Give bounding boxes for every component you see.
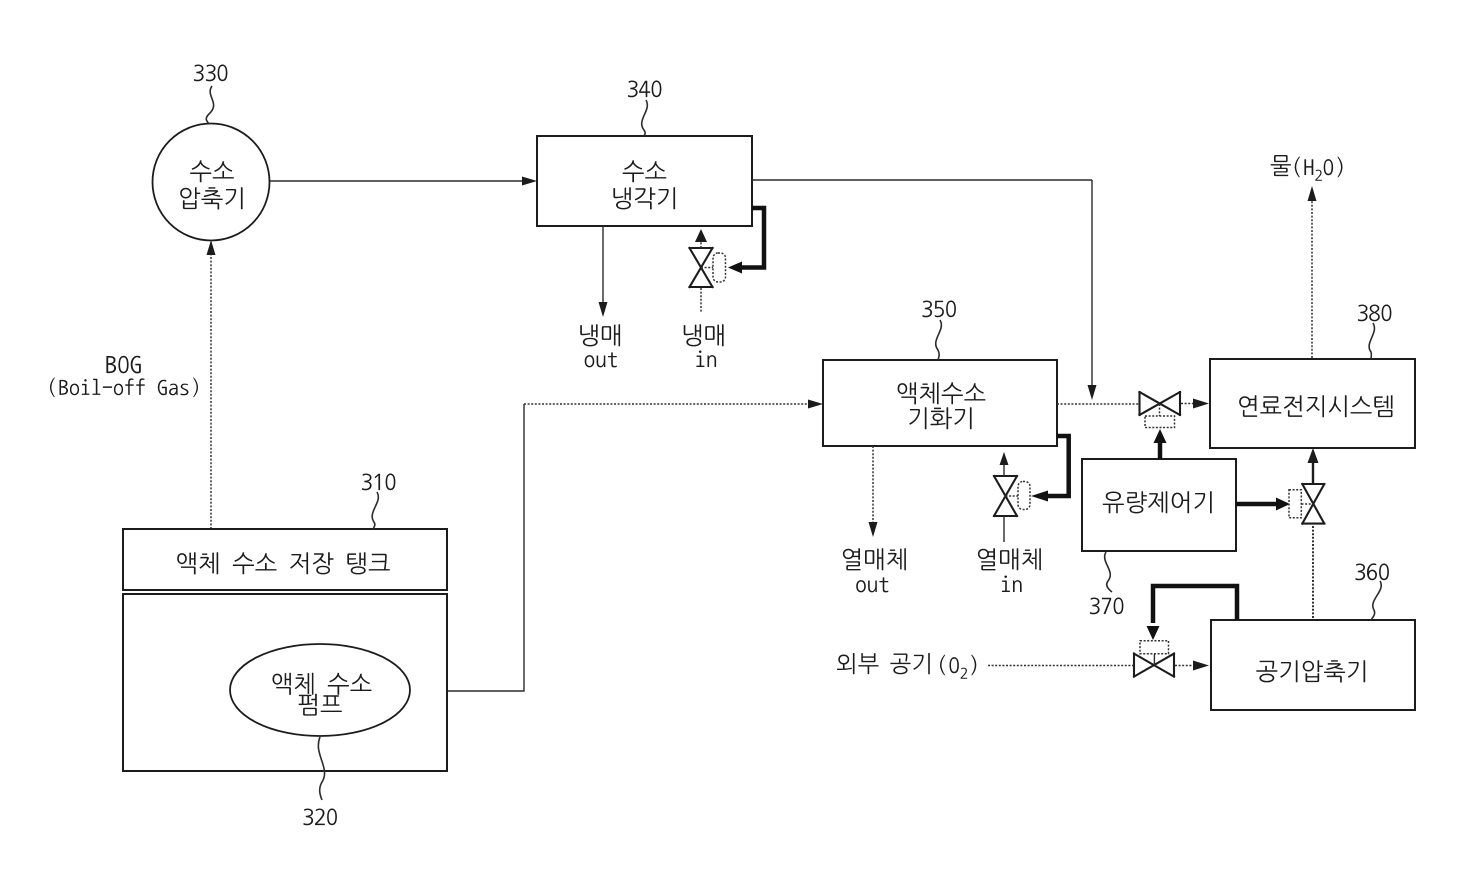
- valve FV2 link to actuator: [1302, 503, 1314, 505]
- wire valve FV3 to air compressor: [1175, 665, 1194, 667]
- valve FV2 air feed: [1302, 484, 1324, 524]
- valve V1 stem to cooler: [700, 242, 702, 248]
- wire valve FV2 to air compressor: [1312, 526, 1314, 620]
- ref label 320: [303, 809, 337, 826]
- ref label 360: [1355, 563, 1389, 580]
- wire valve FV2 to fuel cell (air in): [1312, 463, 1314, 483]
- liquid hydrogen pump ellipse 320: [230, 644, 410, 736]
- heat medium out arrow: [872, 446, 874, 523]
- label 열매체 (out): [843, 548, 906, 570]
- ref 380 leader line: [1369, 323, 1374, 359]
- thick control line cooler to valve V1: [742, 208, 764, 268]
- valve FV3 link to actuator: [1153, 654, 1155, 665]
- wire BOG tank to compressor: [210, 252, 212, 529]
- air compressor text 공기압축기: [1256, 660, 1365, 682]
- wire valve FV1 to fuel cell: [1181, 403, 1194, 405]
- valve FV1 hydrogen feed: [1140, 392, 1181, 415]
- label in 2: [1002, 576, 1022, 593]
- thick control line vaporizer to valve V2: [1048, 436, 1069, 496]
- valve FV3 actuator box: [1140, 641, 1169, 654]
- label subscript 2 of H2O: [1315, 170, 1322, 181]
- wire external air to valve FV3: [988, 665, 1133, 667]
- valve V2 heat medium inlet below vaporizer: [994, 476, 1017, 516]
- label O paren: [1324, 157, 1343, 178]
- vaporizer text line2 기화기: [909, 407, 971, 429]
- tank text 액체 수소 저장 탱크: [177, 552, 390, 574]
- pump text line1 액체 수소: [273, 673, 372, 695]
- water outlet line: [1311, 200, 1313, 358]
- vaporizer text line1 액체수소: [898, 382, 986, 404]
- valve V1 link to actuator: [701, 267, 713, 269]
- ref 340 leader line: [642, 100, 648, 136]
- valve FV1 link to actuator: [1159, 404, 1161, 417]
- label in: [696, 351, 716, 368]
- wire compressor to cooler: [270, 180, 524, 182]
- hydrogen compressor circle 330: [153, 124, 270, 241]
- liquid hydrogen storage tank header box 310: [123, 529, 447, 590]
- wire cooler to fuel-cell line junction: [752, 179, 1092, 181]
- compressor text line1 수소: [190, 160, 234, 182]
- cooler text line2 냉각기: [613, 187, 675, 209]
- refrigerant out arrow: [602, 226, 604, 303]
- ref label 310: [362, 474, 396, 491]
- flow controller text 유량제어기: [1103, 491, 1212, 513]
- ref 320 leader line: [318, 737, 324, 800]
- tank body box: [123, 594, 447, 771]
- flow controller box 370: [1082, 459, 1236, 551]
- valve FV1 actuator box: [1145, 416, 1175, 428]
- label (O: [940, 655, 959, 676]
- ref label 380: [1358, 305, 1392, 322]
- wire pump riser to vaporizer: [410, 404, 524, 691]
- thick control line controller to valve FV2: [1236, 502, 1276, 507]
- ref label 330: [194, 65, 228, 82]
- liquid hydrogen vaporizer box 350: [823, 360, 1057, 446]
- valve V2 actuator capsule: [1018, 482, 1030, 510]
- fuel cell text 연료전지시스템: [1239, 395, 1392, 417]
- air compressor box 360: [1211, 620, 1415, 710]
- fuel cell system box 380: [1210, 359, 1415, 448]
- label Boil-off Gas: [50, 378, 198, 398]
- ref label 340: [628, 81, 662, 98]
- valve V2 stem to vaporizer: [1003, 464, 1005, 476]
- pump text line2 펌프: [299, 694, 342, 716]
- label 열매체 (in): [978, 548, 1041, 570]
- label BOG: [106, 356, 140, 374]
- compressor text line2 압축기: [180, 187, 242, 209]
- label out 2: [856, 577, 888, 592]
- cooler text line1 수소: [623, 160, 667, 182]
- ref 360 leader line: [1371, 581, 1381, 620]
- label 냉매 (in): [684, 324, 724, 346]
- label water 물: [1271, 155, 1291, 176]
- ref 310 leader line: [372, 492, 378, 529]
- label close paren: [971, 655, 976, 676]
- ref 370 leader line: [1105, 552, 1112, 592]
- ref 350 leader line: [936, 320, 942, 360]
- valve V1 inlet stem: [700, 288, 702, 313]
- thick control line controller to valve FV1: [1158, 442, 1163, 459]
- label (H: [1295, 157, 1314, 178]
- valve V1 actuator capsule: [713, 253, 726, 282]
- ref 330 leader line: [206, 86, 213, 124]
- valve V1 refrigerant inlet below cooler: [690, 248, 713, 287]
- hydrogen cooler box 340: [537, 136, 752, 226]
- label subscript 2 of O2: [961, 668, 968, 679]
- valve V2 link to actuator: [1006, 495, 1019, 497]
- valve V2 inlet stem: [1003, 516, 1005, 542]
- wire vaporizer outlet to valve FV1: [1057, 403, 1139, 405]
- ref label 370: [1090, 598, 1124, 615]
- valve FV2 actuator box: [1289, 490, 1301, 518]
- label 냉매 (out): [580, 324, 620, 346]
- label out: [585, 352, 617, 367]
- ref label 350: [922, 301, 956, 318]
- label external air 외부 공기: [837, 653, 930, 674]
- thick control line air compressor to valve FV3: [1153, 586, 1237, 623]
- valve FV3 external air: [1134, 654, 1174, 677]
